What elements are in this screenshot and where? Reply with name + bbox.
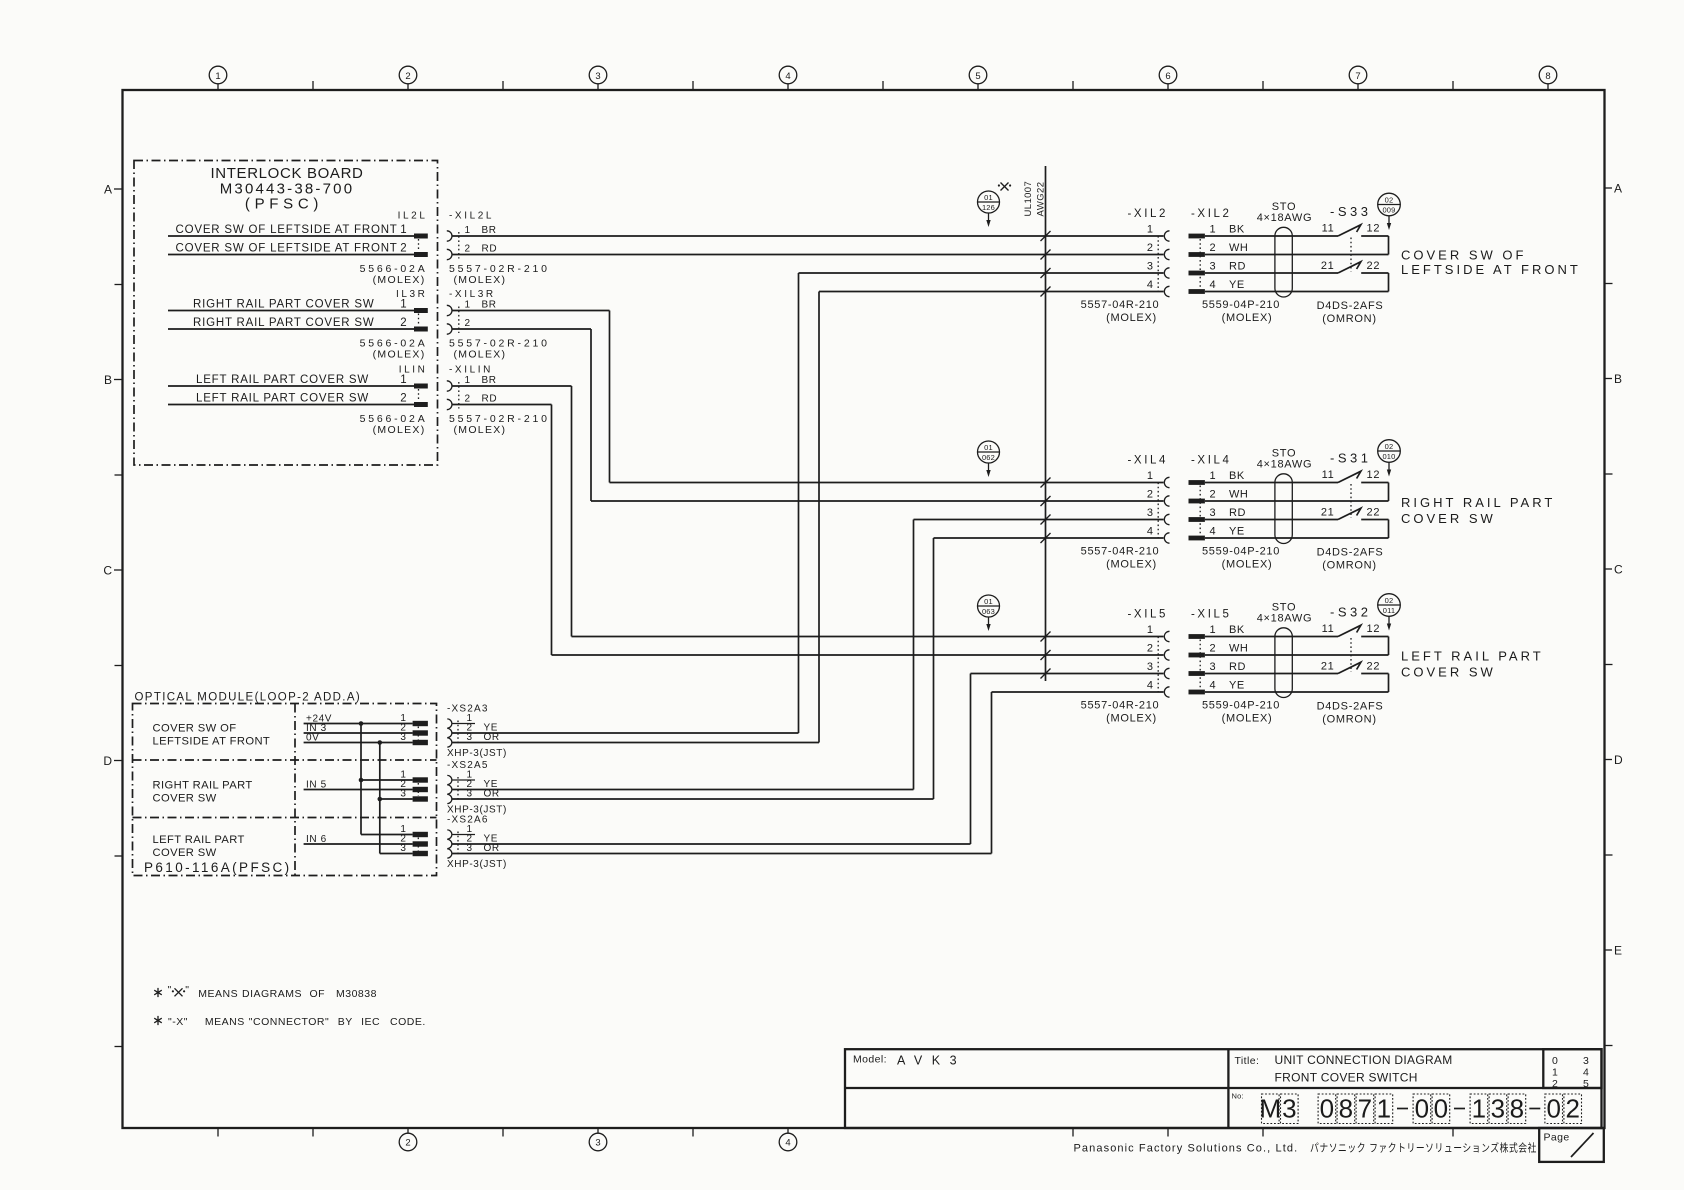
-XIL2L pin 2 socket xyxy=(447,249,452,259)
svg-text:IN 5: IN 5 xyxy=(306,780,327,791)
svg-text:(MOLEX): (MOLEX) xyxy=(373,348,426,360)
svg-text:21: 21 xyxy=(1321,507,1335,519)
svg-text:XHP-3(JST): XHP-3(JST) xyxy=(447,859,507,870)
-XIL5 plug body dotted link xyxy=(1199,640,1201,690)
-XS2A6 pin 2 labels xyxy=(467,834,499,845)
svg-text:-XIL5: -XIL5 xyxy=(1128,609,1169,621)
-XIL2 plug pin 2 bar xyxy=(1189,252,1205,257)
svg-text:5557-04R-210: 5557-04R-210 xyxy=(1081,299,1160,311)
switch -S32 contact 21 blade xyxy=(1338,662,1361,673)
switch -S33 mechanical link xyxy=(1350,238,1352,272)
svg-text:2: 2 xyxy=(1565,1094,1579,1124)
wire IL3R.2 to XIL4.2 xyxy=(168,329,1164,501)
svg-text:02: 02 xyxy=(1385,442,1394,451)
svg-text:1: 1 xyxy=(465,225,471,236)
svg-text:LEFT RAIL PART COVER SW: LEFT RAIL PART COVER SW xyxy=(196,392,369,404)
-XIL2L pin 2 labels xyxy=(465,243,498,254)
-XIL2L body dotted link xyxy=(458,232,460,259)
reference circle 01/063 xyxy=(978,595,1000,617)
svg-text:3: 3 xyxy=(400,843,406,854)
-XIL5 pin 2 socket xyxy=(1164,650,1169,660)
svg-text:3: 3 xyxy=(1583,1055,1589,1067)
switch -S31 wire pin2 xyxy=(1205,500,1389,502)
-XIL2 plug pin 4 bar xyxy=(1189,289,1205,294)
wire IL2L.1 to XIL2.1 xyxy=(168,235,414,237)
-XILIN body dotted link xyxy=(458,382,460,409)
switch -S31 contact 11 blade xyxy=(1338,471,1361,482)
-XIL4 plug pin 2 labels xyxy=(1210,489,1249,501)
drawing number digit boxes xyxy=(1259,1094,1581,1124)
top ruler mid ticks xyxy=(313,81,1453,90)
switch -S32 contact 12 output wire xyxy=(1361,637,1388,656)
switch -S33 wire pin3 xyxy=(1205,272,1338,274)
ILIN pin 2 bar xyxy=(414,402,428,407)
reference circle 02/009 xyxy=(1378,193,1401,216)
-XIL2 pin 3 socket xyxy=(1164,268,1169,278)
svg-text:BK: BK xyxy=(1229,470,1245,482)
svg-text:2: 2 xyxy=(400,392,407,404)
-XIL4 plug body dotted link xyxy=(1199,486,1201,536)
svg-text:(MOLEX): (MOLEX) xyxy=(1106,312,1157,324)
svg-text:2: 2 xyxy=(465,318,471,329)
svg-text:LEFT RAIL PART: LEFT RAIL PART xyxy=(1401,649,1544,664)
svg-text:1: 1 xyxy=(215,71,220,82)
svg-text:1: 1 xyxy=(1472,1094,1486,1124)
svg-text:RIGHT RAIL PART: RIGHT RAIL PART xyxy=(153,780,253,792)
svg-text:1: 1 xyxy=(1147,624,1154,636)
svg-text:B: B xyxy=(1614,372,1622,386)
svg-text:3: 3 xyxy=(1210,261,1217,273)
-XS2A6 pin 3 socket xyxy=(447,849,452,858)
junction dot 0V XS2A5 xyxy=(378,797,383,802)
-XIL2 plug pin 4 labels xyxy=(1210,279,1245,291)
svg-text:WH: WH xyxy=(1229,242,1248,254)
optical module block text 2 xyxy=(153,780,253,805)
wire XS2A6.2 to XIL5.3 xyxy=(452,674,1164,845)
title block vertical divider xyxy=(1227,1049,1229,1128)
-XIL5 pin 4 socket xyxy=(1164,687,1169,697)
-XS2A3 pin 1 bar xyxy=(413,721,428,726)
note diagrams of M30838 xyxy=(154,984,377,1000)
-XILIN pin 1 socket xyxy=(447,381,452,391)
svg-text:IL2L: IL2L xyxy=(398,211,428,222)
svg-text:INTERLOCK BOARD: INTERLOCK BOARD xyxy=(210,165,363,182)
reference mark for M30838 xyxy=(998,183,1011,191)
wire IL2L.2 to XIL2.2 xyxy=(168,254,414,256)
-XIL4 receptacle body dotted link xyxy=(1157,483,1159,539)
bottom ruler ticks xyxy=(218,1128,1453,1137)
-XS2A3 pin 2 socket xyxy=(447,728,452,737)
-XS2A5 pin 3 socket xyxy=(447,794,452,803)
page box xyxy=(1539,1128,1604,1162)
svg-text:02: 02 xyxy=(1385,596,1394,605)
switch -S31 wire pin1 xyxy=(1205,482,1338,484)
cable sheath STO oval -XIL5 xyxy=(1275,628,1292,698)
reference circle 01/062 xyxy=(978,441,1000,463)
reference circle 01/126 xyxy=(978,191,1000,213)
svg-text:2: 2 xyxy=(1147,643,1154,655)
-XS2A6 body dotted link male xyxy=(417,838,419,851)
IL3R pin 1 bar xyxy=(414,308,428,313)
-XIL5 receptacle part number 5557-04R-210 (MOLEX) xyxy=(1081,700,1160,725)
optical module block text 1 xyxy=(153,723,271,748)
svg-text:2: 2 xyxy=(1210,242,1217,254)
svg-text:2: 2 xyxy=(400,317,407,329)
svg-text:RD: RD xyxy=(482,393,498,404)
-XIL3R body dotted link xyxy=(458,307,460,334)
IL2L body dotted link xyxy=(418,239,420,252)
svg-text:RIGHT RAIL PART COVER SW: RIGHT RAIL PART COVER SW xyxy=(193,298,375,310)
-XIL4 plug pin 1 labels xyxy=(1210,470,1245,482)
svg-text:5557-04R-210: 5557-04R-210 xyxy=(1081,546,1160,558)
svg-text:02: 02 xyxy=(1385,196,1394,205)
switch -S32 wire pin3 xyxy=(1205,673,1338,675)
svg-text:11: 11 xyxy=(1322,469,1335,481)
svg-text:1: 1 xyxy=(1147,470,1154,482)
-XS2A6 pin 3 labels xyxy=(467,843,500,854)
svg-text:7: 7 xyxy=(1355,71,1360,82)
svg-text:1: 1 xyxy=(1210,624,1217,636)
-XIL5 plug pin 1 labels xyxy=(1210,624,1245,636)
-XIL4 plug part number 5559-04P-210 (MOLEX) xyxy=(1202,546,1280,571)
svg-text:UL1007: UL1007 xyxy=(1023,181,1034,217)
svg-text:1: 1 xyxy=(1377,1094,1391,1124)
svg-text:COVER SW: COVER SW xyxy=(1401,511,1496,526)
svg-text:Title:: Title: xyxy=(1235,1055,1260,1067)
svg-text:21: 21 xyxy=(1321,260,1335,272)
-XS2A6 pin 2 socket xyxy=(447,839,452,848)
IL3R pin 2 bar xyxy=(414,327,428,332)
-XIL4 pin 4 socket xyxy=(1164,533,1169,543)
-XIL4 receptacle part number 5557-04R-210 (MOLEX) xyxy=(1081,546,1160,571)
svg-text:YE: YE xyxy=(1229,526,1245,538)
svg-text:(MOLEX): (MOLEX) xyxy=(1222,312,1273,324)
switch -S31 mechanical link xyxy=(1350,484,1352,518)
svg-text:0: 0 xyxy=(1320,1094,1334,1124)
-XS2A5 pin 3 labels xyxy=(467,789,500,800)
svg-text:IEC: IEC xyxy=(361,1016,380,1028)
svg-text:(MOLEX): (MOLEX) xyxy=(454,348,507,360)
IL3R part number 5566-02A (MOLEX) xyxy=(360,337,428,360)
svg-text:B: B xyxy=(104,373,112,387)
right ruler letters xyxy=(1605,182,1624,958)
wire XS2A3.2 to XIL2.3 xyxy=(452,273,1164,733)
switch -S32 wire pin1 xyxy=(1205,636,1338,638)
switch -S32 wire pin4 xyxy=(1205,691,1389,693)
-XIL4 pin 2 socket xyxy=(1164,496,1169,506)
-XS2A5 pin 2 labels xyxy=(467,779,499,790)
ILIN row 2 text xyxy=(196,392,408,404)
svg-text:Page: Page xyxy=(1544,1132,1570,1144)
svg-text:BR: BR xyxy=(482,375,497,386)
-XIL5 plug pin 4 bar xyxy=(1189,690,1205,695)
svg-text:(MOLEX): (MOLEX) xyxy=(373,274,426,286)
IL3R body dotted link xyxy=(418,314,420,327)
-XS2A3 0V internal wire xyxy=(304,742,413,744)
-XIL3R pin 2 labels xyxy=(465,318,471,329)
-XIL2 pin 4 socket xyxy=(1164,286,1169,296)
svg-text:6: 6 xyxy=(1165,71,1170,82)
-XS2A3 body dotted link female xyxy=(457,721,459,746)
svg-text:4: 4 xyxy=(1147,526,1154,538)
svg-text:(OMRON): (OMRON) xyxy=(1322,313,1376,325)
svg-text:2: 2 xyxy=(465,393,471,404)
svg-text:3: 3 xyxy=(1147,507,1154,519)
svg-text:Model:: Model: xyxy=(853,1054,887,1066)
switch -S33 contact 12 output wire xyxy=(1361,236,1388,255)
reference circle 02/010 xyxy=(1378,440,1401,463)
svg-text:3: 3 xyxy=(1210,661,1217,673)
svg-text:010: 010 xyxy=(1382,452,1395,461)
-XIL2 plug pin 3 bar xyxy=(1189,271,1205,276)
svg-text:0V: 0V xyxy=(306,733,319,744)
svg-text:12: 12 xyxy=(1367,223,1381,235)
svg-text:AVK3: AVK3 xyxy=(897,1054,966,1068)
-XIL4 plug pin 3 labels xyxy=(1210,507,1246,519)
svg-text:22: 22 xyxy=(1367,260,1381,272)
-XS2A5 pin 2 bar xyxy=(413,787,428,792)
svg-text:11: 11 xyxy=(1322,623,1335,635)
wire XS2A6.3 to XIL5.4 xyxy=(452,692,1164,854)
-XIL5 plug pin 3 bar xyxy=(1189,671,1205,676)
svg-text:IN 6: IN 6 xyxy=(306,834,327,845)
switch -S31 wire pin3 xyxy=(1205,519,1338,521)
svg-text:No:: No: xyxy=(1232,1092,1244,1101)
title block revision numbers xyxy=(1552,1055,1589,1090)
svg-text:12: 12 xyxy=(1367,623,1381,635)
svg-text:2: 2 xyxy=(1210,489,1217,501)
svg-text:BK: BK xyxy=(1229,624,1245,636)
switch -S33 wire pin4 xyxy=(1205,291,1389,293)
-XIL2 receptacle body dotted link xyxy=(1157,236,1159,292)
svg-text:2: 2 xyxy=(400,242,407,254)
cable sheath STO oval -XIL2 xyxy=(1275,227,1292,297)
-XS2A5 pin 1 stub wire xyxy=(452,779,475,781)
svg-text:3: 3 xyxy=(1491,1094,1505,1124)
switch -S33 contact 11-12 numbers xyxy=(1322,223,1380,235)
svg-text:": " xyxy=(168,984,172,996)
svg-text:RD: RD xyxy=(1229,261,1246,273)
switch -S32 contact 21-22 numbers xyxy=(1321,661,1380,673)
svg-text:(MOLEX): (MOLEX) xyxy=(1106,713,1157,725)
svg-text:AWG22: AWG22 xyxy=(1036,182,1047,217)
svg-text:3: 3 xyxy=(1147,661,1154,673)
svg-text:YE: YE xyxy=(1229,279,1245,291)
switch -S31 contact 11-12 numbers xyxy=(1322,469,1380,481)
-XIL2 plug pin 1 labels xyxy=(1210,224,1245,236)
switch -S31 part number D4DS-2AFS (OMRON) xyxy=(1317,547,1384,572)
svg-text:3: 3 xyxy=(400,789,406,800)
-XS2A6 pin 1 socket xyxy=(447,830,452,839)
svg-text:7: 7 xyxy=(1358,1094,1372,1124)
svg-text:1: 1 xyxy=(400,298,407,310)
optical module divider row 1 xyxy=(133,759,437,761)
-XS2A3 pin 1 stub wire xyxy=(452,723,475,725)
switch -S32 part number D4DS-2AFS (OMRON) xyxy=(1317,701,1384,726)
optical module divider row 2 xyxy=(133,817,437,819)
left ruler letters xyxy=(103,183,122,769)
svg-text:3: 3 xyxy=(400,732,406,743)
-XILIN pin 2 socket xyxy=(447,399,452,409)
switch -S33 wire pin1 xyxy=(1205,235,1338,237)
ILIN body dotted link xyxy=(418,389,420,402)
svg-text:LEFTSIDE AT FRONT: LEFTSIDE AT FRONT xyxy=(1401,262,1581,277)
svg-text:FRONT COVER SWITCH: FRONT COVER SWITCH xyxy=(1275,1070,1418,1084)
svg-text:01: 01 xyxy=(984,443,993,452)
svg-text:11: 11 xyxy=(1322,223,1335,235)
note connector IEC code xyxy=(154,1016,426,1028)
svg-text:BK: BK xyxy=(1229,224,1245,236)
-XIL2L pin 1 socket xyxy=(447,231,452,241)
module +24V distribution vertical xyxy=(360,724,362,835)
svg-text:A: A xyxy=(1614,182,1622,196)
svg-text:4×18AWG: 4×18AWG xyxy=(1257,212,1313,224)
svg-text:OPTICAL MODULE(LOOP-2 ADD.A): OPTICAL MODULE(LOOP-2 ADD.A) xyxy=(135,692,362,704)
svg-text:0: 0 xyxy=(1434,1094,1448,1124)
-XIL4 plug pin 1 bar xyxy=(1189,480,1205,485)
svg-text:2: 2 xyxy=(1147,489,1154,501)
svg-text:4: 4 xyxy=(785,1138,790,1149)
svg-text:0: 0 xyxy=(1552,1055,1558,1067)
svg-text:2: 2 xyxy=(405,1138,410,1149)
switch -S33 description xyxy=(1401,248,1581,278)
svg-text:(MOLEX): (MOLEX) xyxy=(1222,559,1273,571)
switch -S31 contact 22 output wire xyxy=(1361,520,1388,539)
switch -S32 contact 22 output wire xyxy=(1361,674,1388,693)
svg-text:4: 4 xyxy=(785,71,790,82)
svg-text:062: 062 xyxy=(982,453,995,462)
svg-text:-S32: -S32 xyxy=(1330,605,1371,620)
svg-text:UNIT CONNECTION DIAGRAM: UNIT CONNECTION DIAGRAM xyxy=(1275,1053,1453,1067)
-XIL3R pin 1 labels xyxy=(465,299,497,310)
-XS2A6 pin 1 bar xyxy=(413,832,428,837)
svg-text:12: 12 xyxy=(1367,469,1381,481)
switch -S31 description xyxy=(1401,495,1555,526)
-XS2A5 pin2 internal wire xyxy=(304,789,413,791)
-XIL2 plug body dotted link xyxy=(1199,239,1201,289)
-XS2A3 pin 3 socket xyxy=(447,738,452,747)
svg-text:-XIL5: -XIL5 xyxy=(1191,609,1232,621)
switch -S32 mechanical link xyxy=(1350,638,1352,672)
-XS2A3 pin 2 labels xyxy=(467,723,499,734)
svg-text:XHP-3(JST): XHP-3(JST) xyxy=(447,748,507,759)
wire XS2A3.3 to XIL2.4 xyxy=(452,292,1164,743)
trunk cable UL1007 AWG22 line xyxy=(1045,166,1047,681)
svg-text:D4DS-2AFS: D4DS-2AFS xyxy=(1317,300,1384,312)
-XIL4 pin 1 socket xyxy=(1164,477,1169,487)
ILIN pin 1 bar xyxy=(414,384,428,389)
svg-text:(PFSC): (PFSC) xyxy=(245,196,323,213)
svg-text:D4DS-2AFS: D4DS-2AFS xyxy=(1317,701,1384,713)
svg-text:(MOLEX): (MOLEX) xyxy=(454,274,507,286)
optical module block text 3 xyxy=(153,834,245,859)
-XIL5 pin 3 socket xyxy=(1164,668,1169,678)
svg-text:4: 4 xyxy=(1147,279,1154,291)
-XIL4 pin 3 socket xyxy=(1164,514,1169,524)
-XS2A5 pin3 internal wire xyxy=(380,798,413,800)
IL2L row 2 text xyxy=(176,242,408,254)
svg-text:RIGHT RAIL PART COVER SW: RIGHT RAIL PART COVER SW xyxy=(193,317,375,329)
svg-text:RD: RD xyxy=(1229,507,1246,519)
svg-text:(MOLEX): (MOLEX) xyxy=(454,424,507,436)
-XIL2 pin 2 socket xyxy=(1164,249,1169,259)
svg-text:2: 2 xyxy=(1147,242,1154,254)
svg-text:1: 1 xyxy=(1552,1067,1558,1079)
svg-text:5559-04P-210: 5559-04P-210 xyxy=(1202,299,1280,311)
cable sheath STO oval -XIL4 xyxy=(1275,474,1292,544)
IL2L part number 5566-02A (MOLEX) xyxy=(360,263,428,286)
trunk crossing slashes xyxy=(1041,231,1051,679)
svg-text:Panasonic Factory Solutions Co: Panasonic Factory Solutions Co., Ltd. xyxy=(1074,1143,1299,1155)
-XS2A6 pin 3 bar xyxy=(413,851,428,856)
-XS2A3 pin2 internal wire xyxy=(304,732,413,734)
-XIL2 plug part number 5559-04P-210 (MOLEX) xyxy=(1202,299,1280,324)
switch -S32 wire pin2 xyxy=(1205,654,1389,656)
svg-text:E: E xyxy=(1614,944,1622,958)
-XS2A6 pin 2 bar xyxy=(413,841,428,846)
reference arrow 01/126 xyxy=(986,213,990,227)
svg-text:COVER SW OF LEFTSIDE AT FRONT: COVER SW OF LEFTSIDE AT FRONT xyxy=(176,224,398,236)
switch -S33 contact 21 blade xyxy=(1338,262,1361,273)
optical module outline xyxy=(133,704,437,876)
svg-text:DIAGRAMS: DIAGRAMS xyxy=(242,988,302,1000)
svg-text:126: 126 xyxy=(982,203,995,212)
-XIL5 pin 1 socket xyxy=(1164,631,1169,641)
switch -S33 part number D4DS-2AFS (OMRON) xyxy=(1317,300,1384,325)
svg-text:5557-04R-210: 5557-04R-210 xyxy=(1081,700,1160,712)
-XIL2 plug pin 2 labels xyxy=(1210,242,1249,254)
svg-text:(MOLEX): (MOLEX) xyxy=(373,424,426,436)
svg-text:LEFT RAIL PART: LEFT RAIL PART xyxy=(153,834,245,846)
svg-text:0: 0 xyxy=(1415,1094,1429,1124)
junction dot +24V XS2A3 xyxy=(359,721,364,726)
-XS2A5 pin 1 bar xyxy=(413,777,428,782)
-XIL4 plug pin 4 labels xyxy=(1210,526,1245,538)
-XIL5 plug pin 2 labels xyxy=(1210,643,1249,655)
left ruler mid ticks xyxy=(115,285,123,1047)
svg-text:3: 3 xyxy=(1282,1094,1296,1124)
-XIL2L part number 5557-02R-210 (MOLEX) xyxy=(449,263,550,286)
IL2L pin 1 bar xyxy=(414,234,428,239)
wire XS2A5.2 to XIL4.3 xyxy=(452,520,1164,790)
reference arrow 02/009 xyxy=(1387,216,1391,230)
svg-text:"-X": "-X" xyxy=(168,1016,188,1028)
svg-text:5559-04P-210: 5559-04P-210 xyxy=(1202,546,1280,558)
IL3R row 1 text xyxy=(193,298,408,310)
interlock board title xyxy=(210,165,363,213)
svg-text:4×18AWG: 4×18AWG xyxy=(1257,613,1313,625)
-XIL2L pin 1 labels xyxy=(465,225,497,236)
svg-text:M: M xyxy=(1259,1094,1281,1124)
svg-text:3: 3 xyxy=(1210,507,1217,519)
svg-text:(OMRON): (OMRON) xyxy=(1322,560,1376,572)
svg-text:0: 0 xyxy=(1546,1094,1560,1124)
svg-text:01: 01 xyxy=(984,193,993,202)
switch -S31 contact 21-22 numbers xyxy=(1321,507,1380,519)
interlock board outline xyxy=(134,161,438,466)
-XS2A6 pin1 internal wire xyxy=(361,834,413,836)
svg-text:2: 2 xyxy=(465,243,471,254)
-XIL3R part number 5557-02R-210 (MOLEX) xyxy=(449,337,550,360)
IL2L pin 2 bar xyxy=(414,252,428,257)
-XS2A3 body dotted link male xyxy=(417,727,419,740)
svg-text:WH: WH xyxy=(1229,489,1248,501)
-XIL2 plug pin 1 bar xyxy=(1189,234,1205,239)
svg-text:2: 2 xyxy=(405,71,410,82)
svg-text:-S33: -S33 xyxy=(1330,204,1371,219)
-XIL4 plug pin 2 bar xyxy=(1189,499,1205,504)
svg-text:COVER SW: COVER SW xyxy=(153,847,217,859)
